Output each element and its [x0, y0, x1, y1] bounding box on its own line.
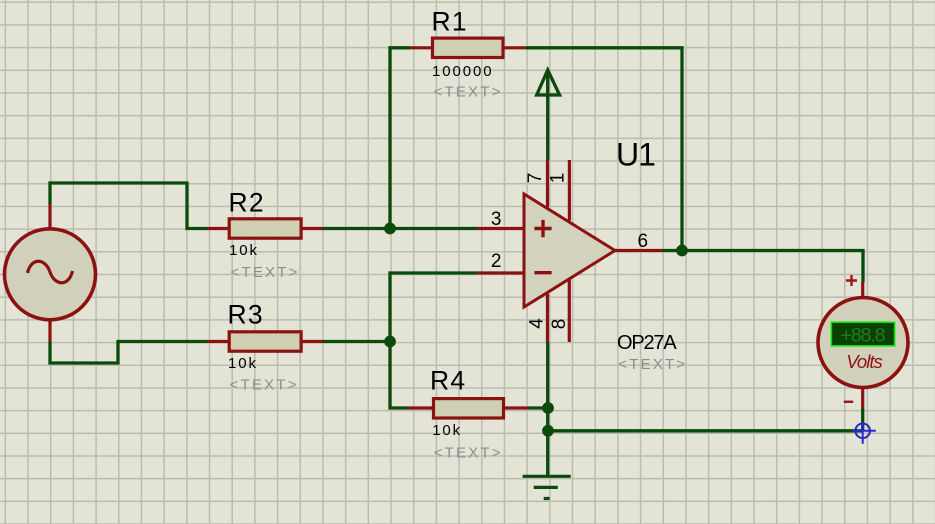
ground — [523, 476, 571, 498]
junction node R1/R2/pin3 — [384, 223, 396, 235]
wire pin6 to node — [662, 249, 682, 252]
junction node pin6/feedback/output — [676, 245, 688, 257]
wire feedback vertical R1 left — [390, 48, 410, 229]
svg-text:<TEXT>: <TEXT> — [434, 84, 503, 101]
svg-text:OP27A: OP27A — [617, 332, 677, 354]
source sine symbol — [28, 261, 73, 283]
voltmeter pin bottom — [861, 386, 864, 408]
svg-text:U1: U1 — [616, 137, 655, 173]
resistor R3 body — [229, 332, 301, 351]
wire node up to pin2 — [390, 273, 477, 342]
op-amp minus input mark — [534, 271, 551, 274]
svg-text:10k: 10k — [228, 355, 258, 372]
svg-text:10k: 10k — [432, 422, 462, 439]
wire R4 right to ground column — [528, 406, 548, 409]
svg-text:1: 1 — [548, 173, 569, 184]
svg-text:<TEXT>: <TEXT> — [230, 377, 299, 394]
resistor R2 pins — [207, 227, 323, 230]
svg-text:Volts: Volts — [846, 351, 882, 372]
svg-text:<TEXT>: <TEXT> — [231, 264, 300, 281]
resistor R2 body — [229, 219, 301, 238]
voltmeter plus terminal mark — [846, 275, 857, 286]
resistor R3 pins — [207, 340, 323, 343]
wire pin4 down to ground — [546, 342, 549, 476]
origin marker at voltmeter minus node — [852, 423, 876, 444]
svg-text:4: 4 — [527, 318, 548, 329]
svg-text:100000: 100000 — [432, 63, 493, 80]
voltmeter minus terminal mark — [844, 401, 853, 403]
wire R1 right to pin6 node — [526, 48, 683, 251]
junction node R4/ground column — [542, 402, 554, 414]
op-amp U1 pin 4 — [546, 294, 549, 342]
op-amp U1 pin 8 — [568, 277, 571, 342]
svg-text:<TEXT>: <TEXT> — [434, 445, 503, 462]
svg-text:R4: R4 — [430, 365, 466, 395]
svg-text:7: 7 — [525, 173, 546, 184]
wire source bottom to R3 — [50, 342, 207, 364]
source VSINE body — [5, 229, 96, 320]
resistor R4 body — [434, 399, 504, 418]
junction node ground/voltmeter return — [542, 425, 554, 437]
svg-text:R3: R3 — [228, 299, 264, 329]
wire ground node to voltmeter minus — [548, 429, 863, 432]
svg-text:10k: 10k — [229, 242, 259, 259]
wire voltmeter bottom — [861, 408, 864, 431]
svg-text:8: 8 — [549, 319, 570, 330]
op-amp U1 body — [524, 194, 615, 307]
wire R3 right to node — [323, 340, 390, 343]
wire R2 right to pin3 — [323, 227, 477, 230]
voltmeter pin top — [861, 282, 864, 298]
svg-text:6: 6 — [638, 231, 649, 252]
voltmeter LCD panel — [831, 322, 894, 346]
op-amp plus input mark — [534, 220, 551, 237]
resistor R1 body — [433, 38, 504, 57]
junction node R3/pin2/R4 — [384, 336, 396, 348]
svg-text:2: 2 — [491, 251, 502, 272]
svg-text:R2: R2 — [229, 187, 265, 217]
svg-text:R1: R1 — [432, 7, 468, 37]
source VSINE pin top — [48, 204, 51, 229]
wire source top to corner — [50, 183, 207, 229]
resistor R4 pins — [408, 406, 528, 409]
resistor R1 pins — [410, 46, 526, 49]
op-amp U1 pin 6 — [615, 249, 662, 252]
svg-text:3: 3 — [491, 209, 502, 230]
wire node down to R4 left — [390, 342, 408, 409]
power symbol arrow — [537, 70, 560, 160]
voltmeter body — [818, 298, 908, 388]
op-amp U1 pin 3 — [477, 227, 524, 230]
svg-text:<TEXT>: <TEXT> — [618, 356, 687, 373]
op-amp U1 pin 7 — [546, 160, 549, 207]
op-amp U1 pin 2 — [477, 271, 524, 274]
svg-text:+88.8: +88.8 — [841, 325, 885, 347]
source VSINE pin bottom — [48, 317, 51, 342]
wire node to voltmeter plus — [682, 251, 863, 283]
op-amp U1 pin 1 — [568, 160, 571, 221]
